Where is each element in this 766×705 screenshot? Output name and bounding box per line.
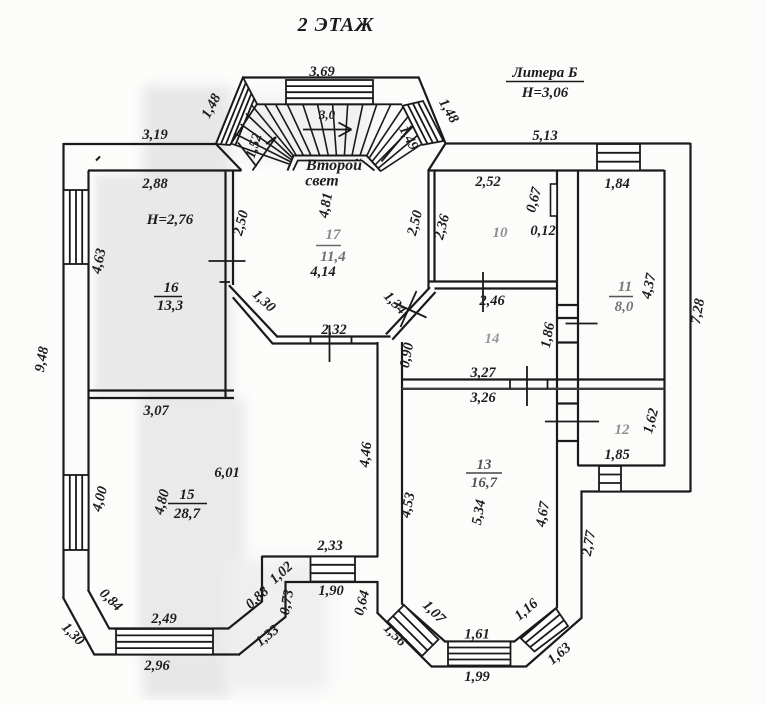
stair entry arrow (253, 137, 277, 171)
svg-text:3,07: 3,07 (142, 403, 169, 419)
tick dim 1,86 (566, 323, 598, 325)
tick dim 1,49 cross (382, 126, 412, 162)
tick dim 1,34 cross b (401, 291, 417, 327)
svg-text:2,33: 2,33 (316, 538, 342, 554)
window W2 left wall lower (64, 475, 89, 550)
window W7 under room 12 (1,85) (599, 466, 621, 492)
window W11 bay angled left (1,07/1,56) (388, 605, 439, 656)
tick dim 2,46 (482, 272, 484, 312)
window W5 bay bottom (1,61/1,99) (448, 642, 511, 666)
svg-text:3,27: 3,27 (469, 365, 496, 381)
room 10 bottom wall lower line (435, 287, 558, 289)
svg-text:3,19: 3,19 (141, 127, 167, 143)
svg-text:5,13: 5,13 (532, 128, 557, 144)
outer wall bottom (2,96) (94, 653, 241, 655)
outer wall step bottom (581, 490, 691, 492)
shaft division 1 (557, 304, 578, 306)
svg-text:1,61: 1,61 (464, 627, 489, 643)
room 13 east wall (556, 171, 558, 608)
outer wall notch drop (0,64) (376, 581, 378, 613)
underline Литера Б (506, 81, 584, 83)
stair bay outer left angle (216, 77, 244, 145)
window W9 stair bay left angled (1,48) (216, 78, 257, 146)
room 14 bottom wall lower line (3,26) (402, 388, 665, 390)
inner notch rise (1,02) (261, 556, 263, 602)
inner plateau top (2,33) (262, 555, 379, 557)
room 11 fraction bar (609, 296, 633, 298)
room 16 bottom wall lower line (89, 397, 235, 399)
tick dim 1,62 (545, 421, 599, 423)
svg-text:2,96: 2,96 (143, 658, 170, 674)
scan smudge vertical streak left-center (143, 86, 231, 698)
room 13 fraction bar (466, 472, 502, 474)
svg-text:11: 11 (618, 279, 632, 295)
room 10 bottom wall upper line (429, 280, 558, 282)
svg-text:16,7: 16,7 (471, 475, 498, 491)
inner bottom-left angle (0,84) (88, 590, 110, 629)
svg-text:28,7: 28,7 (173, 506, 201, 522)
svg-text:8,0: 8,0 (615, 299, 634, 315)
bay bottom wall post a (310, 337, 312, 344)
shaft division 2 (557, 317, 578, 319)
tick dim 1,52 cross (238, 143, 257, 167)
outer wall plateau bottom (1,90) (285, 581, 379, 583)
bay bottom wall upper line (2,32) (276, 335, 391, 337)
inner wall bottom (2,49) (109, 627, 229, 629)
wall room15/13 west line (4,46) (376, 342, 378, 557)
tick dim 2,32 (329, 325, 331, 362)
svg-text:12: 12 (615, 422, 631, 438)
room 16 bottom wall upper line (89, 389, 235, 391)
stair direction arrow main (303, 123, 352, 137)
angled wall 1,34 lower line (392, 292, 435, 340)
svg-text:16: 16 (164, 280, 180, 296)
svg-text:15: 15 (180, 487, 196, 503)
angled wall 1,30 upper line (229, 285, 277, 336)
svg-text:11,4: 11,4 (320, 249, 346, 265)
room 17 fraction bar (316, 245, 341, 247)
window W4 plateau (2,33/1,90) (311, 557, 356, 582)
inner wall line top-right (428, 169, 665, 171)
outer wall left (62, 143, 64, 598)
window W12 bay angled right (1,16/1,63) (521, 609, 568, 652)
svg-text:3,0: 3,0 (318, 107, 336, 122)
window W3 bottom-left (2,49/2,96) (116, 629, 213, 655)
outer wall bay angle left (1,56) (377, 612, 432, 667)
wall room17/10 west line (427, 171, 429, 289)
window W6 top-right wall (5,13) (597, 144, 640, 171)
room 16 fraction bar (154, 296, 182, 298)
outer wall right lower (2,77) (580, 491, 582, 619)
svg-text:6,01: 6,01 (214, 465, 239, 481)
window W8 stair bay top (3,69) (286, 80, 373, 104)
inner notch angle (0,88) (228, 601, 262, 629)
tick small wall 16/17 (220, 281, 231, 283)
stair bay outer top (3,69) (243, 76, 420, 78)
wall room16/17 west line (224, 171, 226, 400)
inner wall left (room 16/15 west) (87, 171, 89, 591)
shaft division 3 (557, 341, 578, 343)
scan smudge bottom center (228, 560, 328, 690)
svg-text:1,84: 1,84 (604, 176, 629, 192)
svg-text:2,32: 2,32 (320, 322, 346, 338)
angled wall 1,34 upper line (386, 287, 430, 334)
wall room16/17 east line (232, 171, 234, 286)
room 12 bottom wall (578, 464, 666, 466)
svg-text:2 ЭТАЖ: 2 ЭТАЖ (297, 14, 375, 36)
room 14 bottom wall post a (509, 380, 511, 389)
shaft division 4 (557, 402, 578, 404)
window W10 stair bay right angled (1,48) (403, 101, 444, 145)
room 15 fraction bar (168, 503, 207, 505)
outer wall top-left (64, 143, 217, 145)
shaft wall east line (577, 171, 579, 466)
wall room17/10 east line (433, 171, 435, 283)
stair bay outer right angle (419, 77, 446, 144)
room 14 bottom wall upper line (3,27) (402, 378, 665, 380)
stair landing outer outline (288, 156, 382, 172)
svg-text:свет: свет (305, 173, 338, 190)
outer wall top-right (5,13) (445, 142, 691, 144)
bay bottom wall post b (351, 337, 353, 344)
svg-text:13: 13 (477, 457, 493, 473)
svg-text:13,3: 13,3 (157, 298, 184, 314)
svg-text:4,14: 4,14 (309, 264, 335, 280)
svg-text:2,52: 2,52 (474, 174, 500, 190)
door leaf room 10 (551, 184, 558, 216)
bay bottom wall lower line (273, 342, 378, 344)
wall miter left of stair bay (216, 144, 242, 171)
room 14 bottom wall post b (547, 380, 549, 389)
svg-text:4,46: 4,46 (357, 440, 376, 469)
svg-text:14: 14 (485, 331, 501, 347)
svg-text:3,26: 3,26 (469, 390, 496, 406)
stray mark top-left (96, 157, 100, 161)
svg-text:Литера Б: Литера Б (511, 65, 578, 81)
svg-text:Н=3,06: Н=3,06 (521, 85, 569, 101)
stair fan treads (231, 104, 422, 171)
svg-text:3,69: 3,69 (308, 64, 334, 80)
outer wall bay bottom (1,99) (431, 665, 527, 667)
inner bay angle right (514, 607, 557, 642)
wall miter right of stair bay (428, 144, 446, 172)
svg-text:2,49: 2,49 (150, 611, 176, 627)
scan smudge room 16 interior (95, 175, 223, 395)
svg-text:1,85: 1,85 (604, 447, 629, 463)
room 13 west wall (401, 342, 403, 604)
angled wall 1,30 lower line (233, 297, 273, 344)
inner bay bottom (444, 640, 515, 642)
inner wall right (rooms 11/12 east) (663, 170, 665, 466)
window W1 left wall upper (64, 190, 89, 264)
svg-text:0,12: 0,12 (530, 223, 555, 239)
inner bay angle left (402, 603, 446, 641)
svg-text:10: 10 (493, 225, 509, 241)
tick dim 3,27 (526, 366, 528, 406)
svg-text:Второй: Второй (305, 157, 362, 174)
tick dim 2,50 room17 west (209, 260, 246, 262)
tick dim 1,34 cross a (394, 303, 427, 318)
stair inner wall line (bay) (257, 103, 402, 105)
shaft division 5 (557, 440, 578, 442)
svg-text:1,90: 1,90 (318, 583, 343, 599)
scan smudge room 15 area (140, 398, 245, 656)
svg-text:2,46: 2,46 (478, 293, 505, 309)
outer wall bay angle right (1,63) (526, 618, 583, 668)
svg-text:Н=2,76: Н=2,76 (146, 212, 194, 228)
inner wall line top-left (88, 169, 242, 171)
svg-text:1,99: 1,99 (464, 669, 489, 685)
outer wall notch angle (1,33) (239, 617, 287, 656)
outer wall bottom-left angle (1,30) (63, 597, 95, 655)
svg-text:2,88: 2,88 (141, 176, 168, 192)
svg-text:17: 17 (326, 227, 342, 243)
outer wall right (7,28) (689, 143, 691, 492)
stair landing inner outline (293, 161, 375, 171)
outer wall notch rise (0,73) (284, 581, 286, 618)
scan smudge stair area (240, 95, 370, 160)
